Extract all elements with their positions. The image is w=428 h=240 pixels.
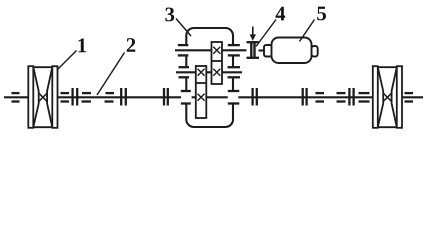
- wire intermediate shaft S2: [176, 71, 242, 73]
- wire input shaft S1: [175, 49, 247, 51]
- bearing P2: [61, 93, 70, 101]
- coupling 4 (motor coupling on input shaft): [247, 42, 260, 58]
- leader line to label 1: [57, 51, 77, 71]
- bearing P5: [316, 93, 325, 101]
- wheel 1 (left drive wheel): [28, 66, 57, 128]
- coupling C2: [121, 88, 126, 106]
- bearing P4: [105, 93, 115, 101]
- coupling C6: [349, 88, 353, 106]
- bearing S1 left wall: [178, 45, 189, 55]
- bearing P8 (right shaft end): [405, 93, 414, 101]
- gear pair column A (pinion on S1 over gear on S2): [212, 42, 223, 84]
- bearing P1 (left shaft end): [12, 93, 20, 101]
- label 1: [78, 39, 86, 53]
- wire shaft stub to motor: [259, 49, 266, 51]
- leader line to label 4: [256, 20, 276, 47]
- bearing S3 right wall: [228, 91, 240, 104]
- bearing P7: [359, 93, 370, 101]
- coupling C1: [73, 88, 78, 106]
- coupling C4: [253, 88, 257, 106]
- bearing S3 left wall: [181, 91, 191, 104]
- label 2: [127, 38, 136, 52]
- wire main output shaft S3: [4, 96, 423, 98]
- label 3: [165, 8, 174, 22]
- wheel (right drive wheel): [373, 66, 402, 128]
- arrow above coupling 4: [250, 27, 256, 41]
- coupling C3: [164, 88, 168, 106]
- bearing P3: [82, 93, 92, 101]
- leader line to label 3: [176, 19, 191, 37]
- bearing S2 right wall: [228, 67, 241, 77]
- gearbox 3 housing: [186, 28, 233, 127]
- bearing S2 left wall: [179, 67, 190, 77]
- bearing P6: [337, 93, 346, 101]
- bearing S1 right wall: [228, 45, 240, 55]
- label 4: [275, 7, 285, 21]
- label 5: [317, 7, 326, 21]
- leader line to label 5: [300, 20, 315, 42]
- motor 5: [264, 38, 318, 64]
- coupling C5: [303, 88, 307, 106]
- gear pair column B (pinion on S2 over gear on S3): [196, 66, 207, 118]
- leader line to label 2: [97, 53, 125, 96]
- wall gaps at shaft crossings: [181, 44, 238, 104]
